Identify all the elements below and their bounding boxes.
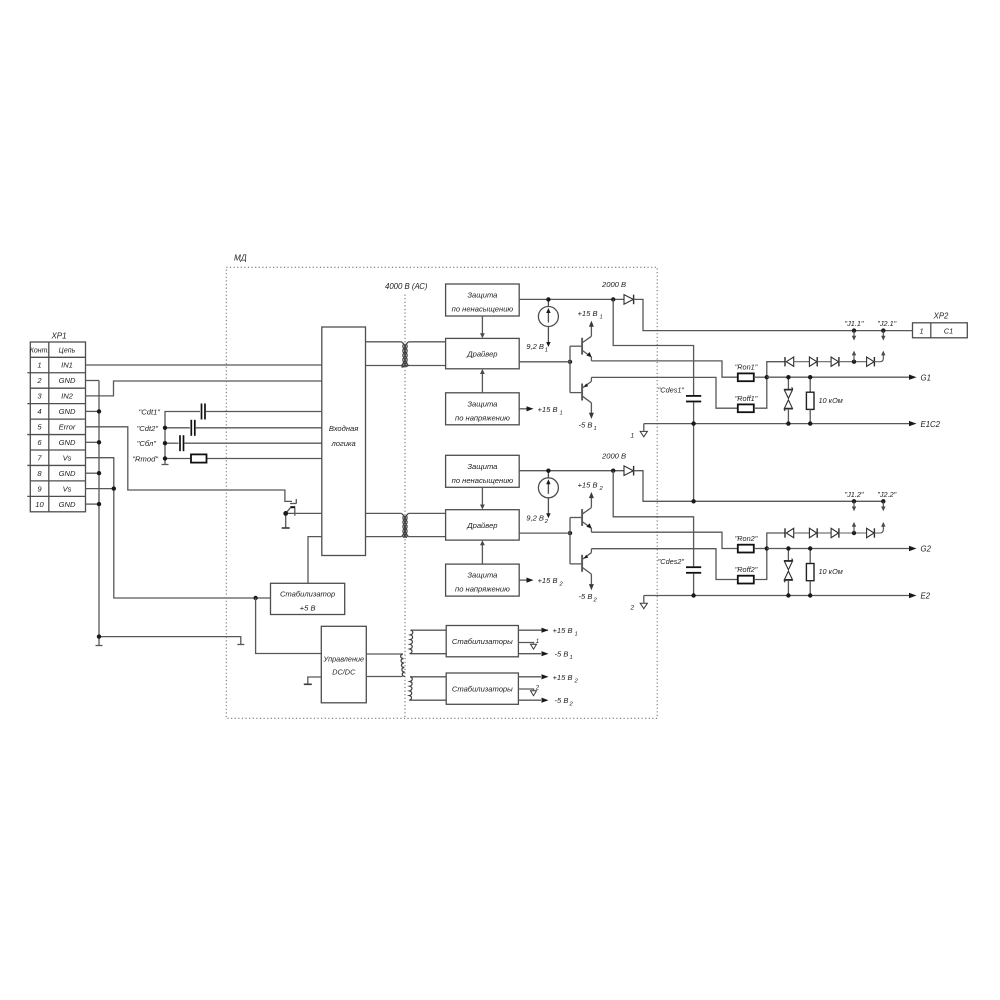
node Vs junction pin9 [112,486,116,490]
wire diode chain 2 feed [767,533,785,549]
capacitor Cdt2 [191,420,195,436]
svg-text:"J2.1": "J2.1" [877,319,896,328]
wire T1 top to driver1 [409,341,446,343]
wire pin7 Vs down to stabilizer feed [86,458,271,598]
svg-text:9,2 В: 9,2 В [526,342,544,351]
diode VD2 2000 В [601,451,634,475]
wire config bus vertical [164,428,166,465]
wire isolation dotted line [404,295,406,719]
wire DC/DC ground tap [308,677,322,684]
wire pin1 IN1 to logic [86,364,322,366]
block driver 2 [446,510,520,540]
node J2.1 junction dot [881,328,885,332]
svg-text:МД: МД [234,254,247,263]
wire emitter top 2 to Ron2 [591,532,737,548]
ground stub below bus junction [98,637,100,646]
wire J2.1 down arrow [882,331,884,336]
capacitor Сбл [180,435,184,451]
svg-text:"J2.2": "J2.2" [877,490,896,499]
wire logic to T2 bottom [366,536,402,538]
svg-text:1: 1 [631,433,635,440]
wire diode2 to jumper rail [634,471,884,502]
node J1.1 junction dot [852,328,856,332]
svg-text:G2: G2 [921,545,932,554]
wire DC/DC out bottom to T3 [366,676,402,678]
svg-text:-5 В: -5 В [579,421,593,430]
svg-text:4000 В (АС): 4000 В (АС) [385,282,428,291]
svg-text:1: 1 [600,315,603,321]
svg-text:"Ron1": "Ron1" [735,363,758,372]
junction dots config bus [163,426,167,461]
node G1 line dots [786,375,790,379]
node chain junction J1.1 lower [852,360,856,364]
wire pin3 IN2 jog to logic [86,381,322,396]
svg-text:"Cdes2": "Cdes2" [658,557,685,566]
wire logic to T2 top [366,512,402,514]
svg-text:1: 1 [560,410,563,416]
wire Roff2 up to G2 junction [754,549,767,580]
svg-text:XP1: XP1 [50,332,66,341]
svg-text:по ненасыщению: по ненасыщению [452,476,514,485]
node E1C2 line dots [691,421,695,425]
node output +15 В1 stab arrow [541,629,548,631]
transistor VT1 NPN top [570,323,591,361]
svg-text:+15 В: +15 В [578,309,598,318]
node J1.2 junction dot [852,499,856,503]
wire stabilizer junction to DC/DC [256,598,322,654]
node MOSFET source dot [283,511,288,516]
svg-text:по ненасыщению: по ненасыщению [452,305,514,314]
suppressor VD TVS 2 [784,549,793,596]
wire vprot1 to driver1 arrow [481,374,483,393]
svg-text:Стабилизаторы: Стабилизаторы [452,685,513,694]
svg-text:1: 1 [570,655,573,661]
wire Сбл line [165,442,179,444]
voltage regulator Стабилизаторы 2 box [446,673,518,704]
svg-text:+15 В: +15 В [553,673,573,682]
svg-text:1: 1 [920,326,924,335]
wire pin6 GND stub [86,441,100,443]
svg-text:по напряжению: по напряжению [455,585,510,594]
svg-text:"Roff1": "Roff1" [735,394,758,403]
node stabilizer input junction [253,596,257,600]
node G2 line dots [786,546,790,550]
DC/DC control box Управление DC/DC [321,626,366,703]
ground stab2 open triangle [531,691,537,696]
resistor R 10 кОм 1 [806,377,842,423]
wire chain end up arrow at J2.1 [881,355,884,362]
svg-text:Error: Error [59,423,76,432]
diode VD1 2000 В [601,280,634,304]
svg-text:GND: GND [59,469,76,478]
svg-text:Входная: Входная [329,424,358,433]
svg-text:IN1: IN1 [61,361,73,370]
wire MOSFET drain to logic [286,512,322,514]
svg-text:Стабилизатор: Стабилизатор [280,590,335,599]
wire ground bus bottom horizontal [99,637,241,645]
svg-text:E1C2: E1C2 [921,420,941,429]
wire stab1 +15 output [518,629,541,631]
XP1 labels and pin texts [30,332,76,509]
ground MOSFET [282,527,290,529]
node driver1 output junction [568,360,572,364]
svg-text:2: 2 [630,604,635,611]
svg-text:2: 2 [535,686,540,692]
svg-text:G1: G1 [921,373,931,382]
wire stab2 +15 output [518,676,541,678]
node output +15 В2 stab arrow [542,674,549,679]
wire stab1 ground elbow [518,643,533,644]
node junction desat2 rail / current source [546,469,550,473]
svg-text:GND: GND [59,407,76,416]
svg-text:E2: E2 [921,592,931,601]
svg-text:10 кОм: 10 кОм [819,396,843,405]
transformer T2 [402,513,409,537]
wire stab2 ground elbow [518,689,533,690]
ground stab1 open triangle [531,644,537,649]
svg-text:-5 В: -5 В [555,696,569,705]
svg-text:Конт.: Конт. [30,348,50,355]
wire J1.2 down arrow [853,501,855,506]
wire vprot1 +15 output arrow [519,408,527,410]
diode chain 1 [785,357,881,366]
ground 1 chassis [643,424,645,431]
svg-text:Защита: Защита [467,462,497,471]
wire driver1 output to bases [519,361,570,363]
wire pin5 Error to MOSFET gate [86,427,293,502]
svg-text:+15 В: +15 В [553,626,573,635]
svg-text:Защита: Защита [467,291,497,300]
wire emitter top 1 to Ron1 [591,361,737,377]
svg-text:"Rmod": "Rmod" [132,455,158,464]
wire J1.1 down arrow [853,331,855,336]
node junction desat rail / Cdes1 branch [611,297,615,301]
wire E1C2 line [644,423,910,425]
transformer T4 primary coil (shared primary lower) [409,677,412,701]
block desaturation protection 2 [446,455,520,487]
wire T4 sec bottom to stabilizers2 [410,699,446,701]
wire T4 sec top to stabilizers2 [410,676,446,678]
node G1 junction dot [765,375,769,379]
block desaturation protection 1 [446,284,520,316]
svg-text:Цепь: Цепь [59,348,76,355]
connector XP1 table [27,342,85,512]
node chain junction J1.2 lower [852,531,856,535]
svg-text:+15 В: +15 В [578,480,598,489]
svg-text:9,2 В: 9,2 В [526,513,544,522]
wire Cdes2 branch [613,471,693,567]
transformer T1 [402,342,409,368]
svg-text:1: 1 [37,361,41,370]
block voltage protection 2 [446,564,520,596]
wire Ron1 to G1 junction [754,376,767,378]
svg-text:C1: C1 [944,326,953,335]
capacitor Cdt1 [202,404,206,420]
transistor VT3 NPN top [570,494,591,532]
svg-text:"Roff2": "Roff2" [735,565,758,574]
svg-text:10: 10 [35,500,44,509]
wire chain end up arrow at J2.2 [881,527,884,534]
svg-text:GND: GND [59,500,76,509]
wire T2 bottom to driver2 [409,536,446,538]
node J2.2 junction dot [881,499,885,503]
svg-text:по напряжению: по напряжению [455,413,510,422]
wire MOSFET source to ground [285,513,287,527]
wire desat2 rail to diode [519,470,624,472]
node driver2 output junction [568,531,572,535]
svg-text:Стабилизаторы: Стабилизаторы [452,637,513,646]
node output -5 В1 stab arrow [542,651,549,656]
svg-text:+15 В: +15 В [538,576,558,585]
diode chain 2 [785,528,881,537]
voltage regulator stabilizer +5V box [271,583,345,614]
wire logic to T1 bottom [366,365,402,367]
ground tick config bus [162,464,169,466]
svg-text:2000 В: 2000 В [601,280,626,289]
transformer T3 primary coil [401,654,405,677]
wire diode1 to top rail [634,299,913,330]
svg-text:"J1.2": "J1.2" [845,490,864,499]
wire stab1 -5 output [518,653,541,655]
wire Roff1 up to G1 junction [754,377,767,408]
connector XP2 [913,311,968,338]
ground 2 chassis [643,596,645,603]
svg-text:10 кОм: 10 кОм [819,567,843,576]
svg-text:Защита: Защита [467,571,497,580]
wire chain up arrow at J1.1 [853,355,855,362]
node junction desat rail / current source [546,297,550,301]
svg-text:+5 В: +5 В [300,604,316,613]
wire Cdt2 line [165,427,190,429]
wire G1 line [767,376,910,378]
ground tick at bus end [237,644,244,646]
svg-text:Vs: Vs [63,453,72,462]
svg-text:"Cdes1": "Cdes1" [658,386,685,395]
op-amp U1 input logic block [322,327,366,556]
svg-text:Vs: Vs [63,484,72,493]
svg-text:4: 4 [37,407,41,416]
voltage regulator Стабилизаторы 1 box [446,626,518,657]
svg-text:Защита: Защита [467,399,497,408]
wire Cdes1 bottom to E1C2 and channel2 rail [693,402,695,501]
svg-text:1: 1 [545,348,548,354]
svg-text:-5 В: -5 В [555,650,569,659]
svg-text:"Cdt1": "Cdt1" [139,408,161,417]
wire stab2 -5 output [518,699,541,701]
svg-text:DC/DC: DC/DC [332,668,356,677]
wire Cdes1 branch [613,299,693,395]
svg-text:1: 1 [594,426,597,432]
node E2 line dots [691,593,695,597]
node G2 junction dot [765,546,769,550]
wire G2 line [767,548,910,550]
wire vprot2 to driver2 arrow [481,545,483,564]
svg-text:-5 В: -5 В [579,592,593,601]
wire pin10 GND stub [86,503,100,505]
wire bases vertical 1 [569,346,571,392]
svg-text:IN2: IN2 [61,392,74,401]
МД module dashed border [226,267,657,718]
wire emitter bottom 2 to Roff2 [591,549,737,580]
wire desat2 to driver2 arrow [481,487,483,505]
svg-text:"Сбл": "Сбл" [137,439,157,448]
wire desat1 to driver1 arrow [481,316,483,334]
current source I1 [538,299,558,342]
wire bases vertical 2 [569,518,571,564]
node output -5 В2 stab arrow [542,698,549,703]
wire logic to T1 top [366,341,402,343]
wire T1 bottom to driver1 [409,365,446,367]
junction dots on XP1 ground bus [97,409,116,639]
svg-text:+15 В: +15 В [538,405,558,414]
wire Cdt1 line [165,412,200,428]
svg-text:"Ron2": "Ron2" [735,534,758,543]
transistor Q1 (input MOSFET) [286,499,322,528]
wire T3 sec bottom to stabilizers1 [410,653,446,655]
block voltage protection 1 [446,393,520,425]
resistor Rmod [191,454,207,462]
svg-text:"Cdt2": "Cdt2" [137,424,159,433]
transistor VT4 PNP bottom [570,549,591,586]
wire DC/DC out top to T3 [366,653,403,655]
transistor VT2 PNP bottom [570,377,591,414]
wire Cdes2 bottom to E2 [693,574,695,596]
svg-text:1: 1 [575,632,578,638]
svg-text:Драйвер: Драйвер [466,521,497,530]
wire J2.2 down arrow [882,501,884,506]
current source I2 [538,471,558,514]
wire ground bus vertical [98,381,100,637]
suppressor VD TVS 1 [784,377,793,423]
resistor R 10 кОм 2 [806,549,842,596]
node Cdes1 to rail2 junction dot [691,499,695,503]
wire T3 sec top to stabilizers1 [411,629,447,631]
wire emitter bottom 1 to Roff1 [591,377,737,408]
wire desat1 rail to diode [519,298,624,300]
wire pin2 GND to ground bus [86,380,100,382]
svg-text:Драйвер: Драйвер [466,350,497,359]
svg-text:2000 В: 2000 В [601,451,626,460]
wire Ron2 to G2 junction [754,548,767,550]
wire pin8 GND stub [86,472,100,474]
wire E2 line [644,595,910,597]
svg-text:GND: GND [59,438,76,447]
node junction desat2 rail / Cdes2 branch [611,469,615,473]
transformer T3 secondary coil [409,630,412,654]
block driver 1 [446,338,520,368]
wire logic to stabilizer [308,537,322,584]
wire driver2 output to bases [519,532,570,534]
wire vprot2 +15 output arrow [519,579,527,581]
svg-text:логика: логика [330,439,355,448]
svg-text:XP2: XP2 [933,311,949,320]
wire diode chain 1 feed [767,362,785,378]
wire chain up arrow at J1.2 [853,527,855,534]
svg-text:2: 2 [36,376,42,385]
svg-text:Управление: Управление [323,655,365,664]
wire T2 top to driver2 [409,512,446,514]
wire pin9 Vs stub to Vs vertical [86,488,114,490]
wire Rmod line [165,458,191,460]
svg-text:"J1.1": "J1.1" [845,319,864,328]
svg-text:GND: GND [59,376,76,385]
svg-text:1: 1 [536,639,539,645]
ground DC/DC [304,683,312,685]
wire pin4 GND stub [86,410,100,412]
